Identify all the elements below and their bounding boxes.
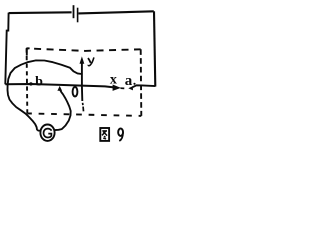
svg-text:x: x — [110, 73, 117, 88]
galvanometer G circle — [40, 125, 54, 141]
x-axis arrow stub — [121, 87, 125, 89]
wire right side — [154, 11, 155, 86]
dashed region left edge — [26, 48, 29, 113]
x-axis arrowhead — [113, 85, 121, 91]
dashed region bottom edge — [27, 113, 141, 116]
y-axis dashed continuation below x-axis — [82, 103, 85, 112]
arrowhead of G lead pointing up into wire ab — [57, 86, 62, 91]
wire top-right segment — [79, 11, 154, 13]
wire ab along x-axis (left part, through b and O) — [5, 84, 114, 87]
caption digit 9 — [118, 129, 123, 141]
node b dot — [29, 82, 32, 85]
wire from G right lead up to wire ab — [55, 90, 71, 130]
y-axis arrowhead — [80, 56, 85, 63]
current direction arrowhead at a (pointing left) — [128, 86, 133, 90]
caption character tu (drawn) — [100, 128, 109, 141]
svg-text:b: b — [35, 74, 43, 89]
battery E long plate — [73, 5, 75, 18]
battery E short plate — [77, 8, 79, 23]
wire top-left segment — [9, 11, 72, 14]
node a dot — [133, 83, 135, 85]
y-axis shaft — [81, 63, 83, 102]
label y — [88, 57, 94, 65]
origin label O — [73, 87, 78, 97]
dashed region right edge — [140, 49, 143, 116]
galvanometer letter G — [44, 129, 52, 138]
wire left side — [5, 13, 8, 85]
dashed region top edge — [27, 48, 141, 51]
flexible loop wire from y-axis to galvanometer — [8, 60, 82, 130]
svg-text:a: a — [125, 73, 133, 89]
wire ab right part from a to right corner — [133, 85, 156, 87]
